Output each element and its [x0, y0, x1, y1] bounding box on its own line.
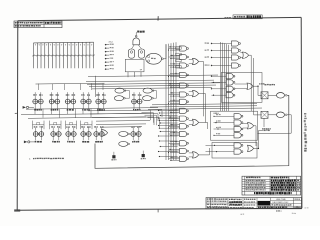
FF10 pin label	[82, 141, 89, 143]
title block mid line right3	[257, 205, 302, 207]
band2 line 1 corner drop	[161, 111, 163, 117]
revision table right col mark	[297, 180, 299, 181]
title block divider	[242, 198, 244, 209]
wire rail drop	[51, 109, 53, 115]
wire box X2 to gate G2	[268, 114, 277, 116]
decoder NAND gate L1	[180, 46, 189, 51]
bus corner bend 4	[148, 118, 160, 128]
revision table row line 4	[242, 185, 301, 187]
revision table row line 3	[242, 183, 301, 185]
FF1 ref label a	[33, 94, 37, 95]
top-right box light text	[234, 16, 245, 18]
svg-text:DECODER LOGIC: DECODER LOGIC	[273, 202, 289, 204]
resistor array line 8	[59, 43, 61, 69]
row A preset distribution wire	[36, 82, 105, 85]
selector NAND gate R3	[232, 55, 241, 60]
time slot unit box X1	[261, 92, 268, 99]
revision table entry text	[246, 189, 266, 190]
wire rail drop b	[59, 109, 61, 118]
gate L10 input wires	[170, 124, 180, 126]
merge MR1 output	[249, 54, 251, 56]
row A interconnect oval U12a	[115, 88, 126, 93]
revision note text line 2	[15, 25, 41, 27]
revision table right col mark	[297, 182, 300, 183]
time slot unit box X2	[261, 111, 268, 118]
revision table bottom dark row	[254, 192, 292, 194]
FF4 ref label a	[81, 94, 85, 96]
title block divider	[293, 198, 295, 209]
wire box X2 down	[263, 118, 265, 127]
FF6 ref label b	[138, 94, 142, 95]
FF10 wires	[82, 128, 84, 132]
row A output rail	[26, 108, 158, 110]
revision table right col mark	[297, 187, 300, 188]
decoder NAND gate R8	[226, 93, 235, 98]
merge OR gate ML3	[193, 119, 199, 125]
title text row4	[207, 206, 227, 207]
gate L13 input wires	[170, 148, 180, 150]
title name line3	[272, 204, 292, 205]
row A interconnect oval U12d	[143, 96, 154, 101]
resistor array mid tie line	[33, 54, 95, 57]
gate L5 input wires	[170, 83, 180, 85]
FF11 pin label	[95, 141, 103, 143]
bus to decoder box line c	[148, 108, 262, 109]
title approvals dark b	[230, 204, 243, 206]
sheet border left edge	[16, 21, 19, 210]
oval pair1 output loop	[125, 91, 130, 99]
FF3 pin label	[67, 109, 74, 111]
title text row2	[207, 201, 227, 202]
title scale cell	[295, 199, 300, 200]
flip-flop FF1 row A	[32, 99, 43, 104]
decoder NAND gate R5	[226, 74, 235, 79]
time slot output gate G2	[277, 112, 285, 118]
FF8 pin label	[52, 141, 60, 143]
FF7 pin label	[35, 141, 42, 143]
gate L11 input wires	[170, 131, 180, 133]
bus corner bend 2	[142, 113, 154, 123]
decoder NAND gate L6	[180, 92, 189, 97]
clock label 4MHZ	[137, 31, 144, 33]
decoder NAND gate L11	[180, 131, 189, 136]
merge OR gate ML4	[193, 152, 199, 158]
resistor array line 13	[78, 42, 80, 68]
merge MR4 output	[254, 147, 259, 149]
svg-text:LINE TIME: LINE TIME	[276, 199, 286, 201]
revision table entry text	[246, 182, 266, 183]
revision note row line	[14, 23, 62, 25]
junction box J2	[176, 53, 182, 55]
wire oscillator block to bus 2	[134, 72, 136, 77]
fan-out stub wire 14	[159, 156, 177, 158]
title block divider	[227, 198, 229, 209]
fan-out stub wire 5	[159, 120, 177, 122]
FF2 ref label b	[56, 94, 59, 95]
FF6 ref label a	[132, 94, 135, 95]
wire preset drop	[64, 84, 66, 90]
flip-flop FF11 row B	[93, 132, 104, 137]
gate L3 input wires	[170, 63, 180, 65]
vertical bus L line 1	[165, 44, 167, 160]
wire oscillator block to bus 3	[140, 72, 142, 77]
FF12 wires	[132, 128, 134, 132]
gate L7 input wires	[170, 99, 180, 101]
resistor array line 17	[93, 42, 95, 68]
fan-out stub wire 10	[159, 135, 178, 137]
input connector CLK row A	[23, 106, 29, 109]
title number row	[258, 207, 287, 209]
resistor array line 11	[70, 42, 72, 68]
title block frame	[206, 198, 302, 209]
FF9 ref label a	[66, 126, 70, 127]
merge MR3 output wire	[254, 126, 256, 146]
wire into unit box X2	[254, 114, 262, 116]
revision table dark date stamp	[271, 187, 296, 189]
FF7 wires	[35, 128, 37, 132]
FF12 pin label	[132, 141, 139, 143]
row B interconnect oval U13a	[119, 131, 130, 136]
note text line	[33, 158, 64, 160]
FF5 ref label b	[102, 94, 106, 96]
decoder NAND gate L12	[180, 141, 189, 146]
one-shot internal label	[151, 58, 156, 59]
oscillator block frame	[125, 59, 144, 72]
right margin handwritten notes strip	[304, 113, 307, 152]
wire down to unit X2	[253, 58, 255, 115]
wire gates to MR2 b	[235, 87, 247, 89]
test point TP2 symbol	[142, 154, 145, 157]
resistor array line 4	[44, 43, 46, 69]
FF3 ref label b	[72, 94, 76, 95]
FF2 input wires	[51, 92, 53, 99]
node stub A4	[105, 54, 107, 56]
output NAND gate R13	[234, 143, 243, 148]
flip-flop FF8 row B	[50, 132, 61, 137]
FF12 ref label b	[137, 126, 141, 127]
band2 line 3 corner drop	[153, 118, 155, 125]
vertical bus R line 2	[222, 43, 224, 112]
vertical bus L line 4	[173, 43, 175, 160]
revision table dark date stamp	[271, 184, 296, 186]
FF5 input wires	[97, 92, 99, 99]
FF8 ref label a	[51, 126, 55, 127]
decoder NAND gate R6	[226, 80, 235, 85]
TP1 label	[111, 159, 116, 160]
vertical bus R line 4	[226, 44, 228, 111]
revision table row line 1	[242, 178, 301, 180]
wire gate leg right	[138, 45, 141, 49]
wire MR2 to unit X1	[258, 86, 262, 95]
pencil mark right of border	[305, 207, 310, 208]
horizontal bus band1 line 4	[89, 85, 216, 87]
resistor array line 5	[48, 43, 50, 69]
wire rail drop b	[75, 109, 77, 118]
revision table column line	[295, 176, 297, 195]
bus corner bend 3	[145, 115, 157, 125]
FF6 input wires	[133, 92, 135, 99]
TP2 wire	[142, 151, 144, 154]
title block divider	[270, 198, 272, 209]
selector NAND gate R1	[232, 41, 241, 46]
FF9 wires	[67, 128, 69, 132]
row A interconnect oval U12c	[143, 88, 154, 93]
title block mid line right1	[271, 200, 302, 202]
one-shot oval gate U11	[146, 53, 162, 64]
wire to sheet2	[258, 130, 263, 132]
zone tick mark left border	[15, 112, 18, 114]
horizontal bus band1 line 5	[92, 87, 212, 88]
SHEET 2 label	[264, 130, 270, 132]
gate L14 input wires	[170, 156, 180, 158]
wire to merge ML1 a	[189, 59, 193, 61]
feedback wire loop	[95, 95, 289, 168]
FF10 ref label a	[81, 126, 85, 127]
revision table entry text	[246, 180, 266, 181]
resistor array line 9	[63, 43, 65, 69]
FF7 ref label a	[34, 126, 38, 127]
flip-flop FF3 row A	[65, 99, 76, 104]
resistor array line 3	[40, 43, 42, 68]
pencil mark bottom a	[241, 214, 245, 215]
junction box J1	[176, 47, 182, 49]
horizontal bus band2 line 2	[90, 112, 158, 115]
FF5 pin label	[97, 109, 105, 111]
wire rail drop b	[90, 109, 92, 118]
fan-out stub wire 7	[159, 125, 178, 127]
FF11 ref label a	[94, 126, 98, 127]
wire band1 drop to row A	[95, 76, 97, 97]
node stub B1	[211, 43, 212, 44]
wire gates to MR2 a	[235, 83, 247, 85]
resistor array line 1	[33, 43, 35, 68]
resistor array line 7	[55, 43, 57, 69]
decoder NAND gate R9	[234, 114, 243, 119]
wire one-shot output to bus	[163, 44, 166, 59]
wire rail drop	[82, 109, 84, 115]
junction MR4 output node	[258, 148, 259, 149]
fan-out stub wire 11	[159, 140, 177, 142]
oval pair2 output loop	[153, 91, 157, 99]
FF3 input wires	[67, 92, 69, 99]
revision note dark stamp	[45, 22, 62, 24]
band2 line 2 corner drop	[157, 114, 159, 121]
node stub A1	[105, 44, 107, 46]
FF11 wires	[95, 128, 97, 132]
FF2 ref label a	[50, 94, 54, 95]
bottom-left corner ink smudge	[14, 209, 20, 211]
row B output merge funnel M5	[102, 130, 108, 136]
title block divider	[256, 198, 258, 209]
horizontal bus band1 line 1	[88, 75, 218, 77]
sheet border top edge	[18, 17, 301, 20]
FF4 input wires	[82, 92, 84, 99]
decoder group box 3	[212, 143, 257, 159]
merge gate MR4	[248, 145, 254, 151]
resistor array line 10	[66, 43, 68, 69]
wire clock gate output up	[135, 32, 138, 36]
revision table column line	[288, 176, 290, 195]
title block divider	[210, 198, 212, 209]
pencil mark below title	[276, 210, 281, 212]
wire to merge ML2 a	[189, 91, 193, 93]
title cells text e	[244, 201, 255, 202]
vertical bus R line 3	[224, 43, 226, 111]
fan-out stub wire 6	[160, 122, 177, 124]
revision table entry text	[246, 187, 266, 188]
node stub A5	[105, 58, 107, 60]
gate L6 input wires	[170, 92, 180, 94]
bus to decoder box line a	[152, 104, 257, 105]
TP2 label	[141, 158, 146, 159]
wire to merge ML4 b	[189, 156, 193, 158]
title cells text d	[244, 199, 256, 200]
revision table dark date stamp	[271, 189, 296, 191]
terminator resistor array: top bus	[34, 41, 94, 44]
FF8 wires	[52, 128, 54, 132]
merge ML1 output wire	[199, 62, 204, 117]
FF6 pin label	[133, 109, 141, 111]
revision table right col mark	[297, 189, 299, 190]
wire input A to FF1	[29, 106, 34, 108]
resistor array line 15	[85, 42, 87, 68]
wire box X1 to gate G1	[268, 94, 277, 96]
zone tick mark top border	[157, 16, 159, 20]
TP1 wire	[113, 152, 115, 155]
vertical bus R line 5	[228, 45, 230, 112]
gate L2 input wires	[170, 54, 180, 56]
merge ML2 output wire	[199, 94, 206, 123]
flip-flop FF7 row B	[33, 132, 44, 137]
FF4 pin label	[82, 109, 90, 111]
resistor array line 12	[74, 42, 76, 68]
wire to merge ML3 b	[189, 123, 193, 125]
resistor array line 14	[81, 42, 83, 68]
FF12 ref label a	[131, 126, 135, 127]
horizontal bus band1 line 3	[87, 83, 220, 85]
resistor array arrowheads	[35, 44, 36, 45]
decoder NAND gate L3	[180, 63, 189, 68]
wire preset drop	[102, 84, 104, 90]
revision table column line	[244, 176, 246, 195]
title cells text f	[244, 204, 255, 205]
revision table header text	[246, 177, 261, 179]
gate L8 input wires	[170, 108, 180, 110]
decoder NAND gate L2	[180, 54, 189, 59]
vertical bus L line 3	[170, 43, 172, 160]
sheet border bottom edge	[17, 208, 302, 210]
zone tick mark bottom border	[157, 209, 159, 212]
decoder NAND gate L8	[180, 108, 189, 113]
title sheet cell	[295, 207, 301, 208]
wire preset drop	[80, 84, 82, 90]
horizontal bus band2 line 3	[92, 116, 154, 119]
revision table right col mark	[297, 185, 300, 186]
oscillator tube gate Y2	[138, 49, 144, 58]
decoder group box 2	[211, 111, 258, 140]
decoder NAND gate L13	[180, 148, 189, 153]
title block ident dark cell	[258, 201, 270, 206]
mid rail line left a	[21, 113, 150, 115]
mid rail line left b	[28, 117, 146, 118]
revision note text line 1	[15, 22, 44, 24]
flip-flop FF10 row B	[80, 132, 91, 137]
FF9 pin label	[67, 141, 75, 143]
row A interconnect oval U12b	[114, 96, 125, 101]
junction box J4	[176, 66, 182, 68]
wire MR1 down to box2	[250, 55, 252, 111]
revision table row line 6	[242, 191, 301, 193]
merge ML3 output wire	[199, 122, 208, 129]
wire preset drop	[38, 84, 40, 90]
wire oscillator block to bus 1	[127, 72, 129, 77]
selector NAND gate R4	[232, 63, 241, 68]
bus band2 lower line 1	[96, 119, 150, 122]
pencil mark bottom b	[292, 213, 296, 214]
revision table row line 2	[242, 181, 301, 183]
gate L9 input wires	[170, 116, 180, 118]
revision table dark date stamp	[271, 180, 296, 182]
node stub B4	[211, 65, 212, 66]
output NAND gate R14	[234, 149, 243, 154]
title bottom text row	[207, 207, 254, 208]
decoder NAND gate L14	[180, 156, 189, 161]
resistor array line 16	[89, 42, 91, 68]
resistor array mid component band	[32, 54, 34, 56]
fan-out stub wire 9	[160, 131, 177, 133]
input connector RESET row B	[24, 141, 30, 144]
fan-out stub wire 8	[159, 127, 177, 129]
clock NAND gate pointing up U10	[135, 35, 137, 37]
flip-flop FF9 row B	[65, 132, 76, 137]
node stub A2	[105, 47, 107, 49]
merge gate MR3	[248, 123, 254, 129]
decoder NAND gate R10	[234, 120, 243, 125]
wire preset drop	[52, 84, 54, 90]
wire rail drop	[34, 109, 36, 115]
decoder NAND gate L7	[180, 99, 189, 104]
junction MR2 out	[257, 86, 258, 87]
horizontal bus band2 line 1	[88, 109, 162, 112]
wire rail drop	[97, 109, 99, 115]
title cells text a	[229, 199, 242, 201]
title block mid line right2	[271, 203, 302, 205]
FF1 pin label	[34, 109, 42, 111]
revision note divider	[43, 21, 45, 28]
flip-flop FF12 row B	[130, 132, 141, 137]
resistor array line 2	[36, 43, 38, 68]
top-right drawing number box	[233, 15, 262, 19]
MR2 output label	[259, 83, 265, 84]
FF2 pin label	[51, 109, 59, 111]
revision table column line	[280, 176, 282, 195]
sheet border right edge	[300, 17, 303, 208]
inter-row wiring loop 2	[50, 121, 62, 130]
node stub A6	[105, 61, 107, 63]
title block mid line left	[206, 202, 271, 204]
merge OR gate ML2	[193, 90, 199, 96]
oscillator tube gate Y1	[128, 49, 134, 58]
FF4 ref label b	[87, 94, 90, 95]
bus band2 lower line 2	[96, 123, 146, 126]
node stub B3	[211, 57, 212, 58]
gate L12 input wires	[170, 141, 180, 143]
revision table row line 5	[242, 188, 301, 190]
decoder NAND gate R11	[234, 126, 243, 131]
gate L1 input wires	[170, 46, 180, 48]
FF7 ref label b	[40, 126, 43, 127]
label under X2	[262, 128, 271, 129]
